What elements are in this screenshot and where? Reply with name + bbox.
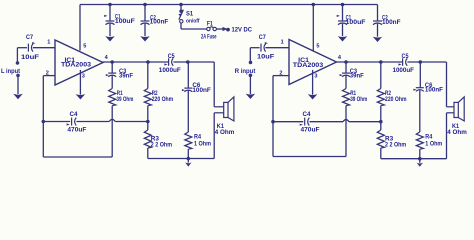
wire hop over R1 left xyxy=(109,119,115,121)
wire +12V top rail xyxy=(80,4,378,6)
resistor R2 left 220 Ohm xyxy=(144,62,173,122)
svg-text:2 2 Ohm: 2 2 Ohm xyxy=(385,142,407,149)
svg-text:5: 5 xyxy=(316,43,319,49)
pin 5 label right xyxy=(316,43,319,49)
pin 1 label right xyxy=(281,39,284,45)
svg-text:on/off: on/off xyxy=(186,18,200,24)
node feedback junction right xyxy=(271,120,275,124)
svg-text:100nF: 100nF xyxy=(425,87,443,94)
pin 3 label right xyxy=(314,73,317,79)
node feedback junction left xyxy=(42,120,46,124)
svg-text:470uF: 470uF xyxy=(301,127,320,134)
svg-text:10uF: 10uF xyxy=(257,54,275,61)
wire fuse to 12V terminal xyxy=(216,28,223,30)
wire output left xyxy=(103,61,168,63)
wire hop to R2 right xyxy=(349,121,381,123)
capacitor C7 right 10uF xyxy=(250,34,289,61)
ground R4 right xyxy=(417,159,423,167)
svg-text:C5: C5 xyxy=(402,53,410,60)
svg-text:TDA2003: TDA2003 xyxy=(293,62,324,69)
ground C2 right xyxy=(373,37,383,42)
wire hop over R1 right xyxy=(343,120,349,122)
capacitor C2 right 100nF xyxy=(373,5,401,37)
svg-text:C7: C7 xyxy=(259,34,267,41)
svg-text:39 Ohm: 39 Ohm xyxy=(116,96,133,103)
node output C6 junction left xyxy=(186,60,190,64)
ground C1 left xyxy=(105,36,115,41)
wire pin5 riser right xyxy=(312,5,314,51)
wire ground rail B left xyxy=(148,158,214,160)
pin 4 label right xyxy=(338,55,342,61)
ground C1 right xyxy=(338,36,348,41)
svg-text:5: 5 xyxy=(83,43,86,49)
svg-text:100uF: 100uF xyxy=(346,19,366,26)
node output R2 junction right xyxy=(379,60,383,64)
wire output drop to speaker right xyxy=(446,62,448,107)
node rail junction C2 left xyxy=(143,3,147,7)
capacitor C3 left 39nF xyxy=(106,62,133,89)
svg-text:12V DC: 12V DC xyxy=(232,27,253,34)
capacitor C2 left 100nF xyxy=(141,5,169,37)
svg-text:R input: R input xyxy=(235,68,256,75)
wire feedback to C4 left xyxy=(43,121,70,123)
resistor R1 right 39 Ohm xyxy=(343,89,368,106)
pin 3 ground right xyxy=(308,70,318,100)
node rail junction S1 xyxy=(179,3,183,7)
wire pin5 riser left xyxy=(79,5,81,51)
wire R1 bottom to ground rail right xyxy=(345,106,347,157)
node rail R4 right xyxy=(418,157,422,161)
svg-text:2 2 Ohm: 2 2 Ohm xyxy=(151,142,173,149)
svg-text:1 Ohm: 1 Ohm xyxy=(425,140,443,147)
wire R1 bottom to ground rail left xyxy=(111,106,113,157)
wire speaker bottom left xyxy=(213,113,215,159)
node rail junction C1 left xyxy=(108,3,112,7)
node output R2 junction left xyxy=(146,60,150,64)
wire C5 to speaker left xyxy=(173,61,214,63)
svg-text:220 Ohm: 220 Ohm xyxy=(152,96,174,103)
ground C2 left xyxy=(140,36,150,41)
wire pin2 feedback column left xyxy=(42,76,44,157)
svg-text:220 Ohm: 220 Ohm xyxy=(385,96,407,103)
capacitor C6 left 100nF xyxy=(182,62,211,132)
capacitor C4 left 470uF xyxy=(67,111,87,134)
terminal 12V DC input xyxy=(223,27,253,34)
wire pin2 right xyxy=(273,75,289,77)
svg-text:F1: F1 xyxy=(207,21,213,28)
wire C5 to speaker right xyxy=(407,61,446,63)
wire C4 to hop left xyxy=(76,121,109,123)
svg-text:100uF: 100uF xyxy=(115,18,135,25)
wire pin2 left xyxy=(43,75,55,77)
resistor R2 right 220 Ohm xyxy=(377,62,407,122)
wire output right xyxy=(337,61,403,63)
capacitor C5 left 1000uF xyxy=(159,53,181,74)
node rail junction pin5 right xyxy=(312,3,316,7)
resistor R4 right 1 Ohm xyxy=(416,132,443,159)
svg-text:470uF: 470uF xyxy=(67,127,86,134)
svg-text:1: 1 xyxy=(47,39,50,45)
svg-text:3: 3 xyxy=(314,73,317,79)
svg-text:100nF: 100nF xyxy=(192,87,211,94)
resistor R3 right 2.2 Ohm xyxy=(377,122,406,159)
svg-text:3: 3 xyxy=(82,73,85,79)
svg-text:1000uF: 1000uF xyxy=(159,67,181,74)
wire ground rail B right xyxy=(381,158,447,160)
svg-text:4 Ohm: 4 Ohm xyxy=(447,129,467,136)
pin 3 label left xyxy=(82,73,85,79)
speaker K1 left 4 Ohm xyxy=(214,97,235,136)
wire hop to R2 left xyxy=(115,121,148,123)
node output C6 junction right xyxy=(419,60,423,64)
pin 3 ground left xyxy=(76,70,86,100)
capacitor C1 left 100uF xyxy=(104,5,135,37)
pin 2 label right xyxy=(279,71,282,77)
node feedback R2/R3 left xyxy=(146,120,150,124)
svg-text:C4: C4 xyxy=(303,111,312,118)
wire feedback to C4 right xyxy=(273,121,303,123)
svg-text:1000uF: 1000uF xyxy=(393,67,415,74)
svg-text:C7: C7 xyxy=(26,34,34,41)
node output C3 junction right xyxy=(344,60,348,64)
svg-text:100nF: 100nF xyxy=(382,19,401,26)
speaker K1 right 4 Ohm xyxy=(447,97,468,136)
ground R input xyxy=(246,74,256,100)
svg-text:C4: C4 xyxy=(70,111,79,118)
node rail junction C1 right xyxy=(341,3,345,7)
node feedback R2/R3 right xyxy=(379,120,383,124)
wire pin2 feedback column right xyxy=(272,76,274,157)
wire ground rail A left xyxy=(43,156,112,158)
switch S1 on/off xyxy=(178,5,199,30)
pin 1 label left xyxy=(47,39,50,45)
svg-text:4 Ohm: 4 Ohm xyxy=(215,129,235,136)
capacitor C4 right 470uF xyxy=(300,111,320,134)
pin 5 label left xyxy=(83,43,86,49)
capacitor C1 right 100uF xyxy=(337,5,366,37)
svg-text:10uF: 10uF xyxy=(21,54,39,61)
svg-text:39nF: 39nF xyxy=(350,73,364,80)
wire ground rail A right xyxy=(273,156,346,158)
svg-text:2A Fuse: 2A Fuse xyxy=(201,34,217,41)
svg-text:C5: C5 xyxy=(168,53,176,60)
terminal L input xyxy=(1,48,20,75)
capacitor C3 right 39nF xyxy=(340,62,364,89)
capacitor C5 right 1000uF xyxy=(393,53,415,74)
resistor R4 left 1 Ohm xyxy=(185,132,212,159)
pin 4 label left xyxy=(105,55,109,61)
terminal R input xyxy=(235,48,256,75)
ground L input xyxy=(13,74,23,100)
wire output drop to speaker left xyxy=(213,62,215,107)
resistor R3 left 2.2 Ohm xyxy=(144,122,172,159)
wire speaker bottom right xyxy=(446,113,448,159)
node rail R4 left xyxy=(187,157,191,161)
svg-text:S1: S1 xyxy=(186,11,194,18)
ground R4 left xyxy=(185,159,191,167)
svg-text:39nF: 39nF xyxy=(119,73,133,80)
svg-text:1: 1 xyxy=(281,39,284,45)
svg-text:100nF: 100nF xyxy=(150,18,169,25)
resistor R1 left 39 Ohm xyxy=(109,89,134,106)
op-amp IC1 left TDA2003 xyxy=(55,40,103,85)
svg-text:TDA2003: TDA2003 xyxy=(61,62,92,69)
capacitor C6 right 100nF xyxy=(413,62,443,132)
capacitor C7 left 10uF xyxy=(17,34,55,61)
node output C3 junction left xyxy=(110,60,114,64)
label 2A Fuse xyxy=(201,34,217,41)
op-amp IC1 right TDA2003 xyxy=(289,40,337,85)
pin 2 label left xyxy=(46,70,49,76)
svg-text:39 Ohm: 39 Ohm xyxy=(350,96,367,103)
wire C4 to hop right xyxy=(310,121,344,123)
svg-text:1 Ohm: 1 Ohm xyxy=(194,140,212,147)
fuse F1 2A xyxy=(207,21,217,31)
wire S1 to fuse xyxy=(181,28,207,30)
